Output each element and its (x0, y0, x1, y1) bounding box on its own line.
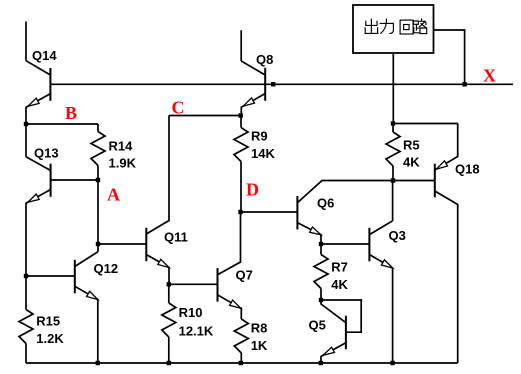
svg-text:14K: 14K (251, 146, 275, 161)
svg-text:D: D (246, 180, 259, 200)
svg-text:A: A (107, 185, 120, 205)
resistor R14 1.9K (91, 124, 137, 180)
wire node B row (26, 123, 98, 125)
svg-text:Q14: Q14 (32, 48, 57, 63)
junction Q12 collector (96, 242, 100, 246)
resistor R15 1.2K (19, 276, 64, 363)
block 出力回路 (output circuit) (353, 5, 434, 53)
node B (24, 103, 77, 126)
wire node A vertical (97, 180, 99, 244)
svg-text:R7: R7 (331, 260, 348, 275)
svg-text:Q12: Q12 (94, 261, 119, 276)
wire block right to node X (434, 30, 465, 84)
wire Q7 base row (169, 283, 218, 285)
svg-text:12.1K: 12.1K (179, 324, 214, 339)
svg-text:R10: R10 (179, 305, 203, 320)
svg-text:C: C (172, 98, 185, 118)
resistor R8 1K (234, 308, 268, 364)
wire node C row (169, 115, 241, 117)
junction Q11 emitter / R10 / Q7 base (167, 282, 171, 286)
svg-text:4K: 4K (403, 155, 420, 170)
transistor Q3 (369, 181, 405, 364)
resistor R10 12.1K (162, 284, 214, 363)
junction Q12 emitter at ground rail (96, 361, 100, 365)
svg-text:Q18: Q18 (455, 161, 480, 176)
svg-text:R15: R15 (36, 313, 60, 328)
resistor R9 14K (234, 116, 275, 213)
wire V+ supply rail (top bus) (50, 83, 513, 85)
junction Q3 emitter at ground rail (390, 361, 394, 365)
svg-text:X: X (483, 66, 496, 86)
svg-text:Q8: Q8 (256, 52, 273, 67)
junction Q8 emitter (239, 113, 243, 117)
node D (238, 180, 259, 215)
wire Q12 collector to Q11 base (98, 243, 146, 245)
svg-text:R9: R9 (251, 129, 268, 144)
svg-text:Q13: Q13 (34, 145, 59, 160)
svg-text:R5: R5 (403, 138, 420, 153)
transistor Q14 (26, 22, 57, 125)
svg-text:R14: R14 (109, 139, 134, 154)
svg-text:1K: 1K (251, 338, 268, 353)
junction Q5 emitter at ground rail (319, 361, 323, 365)
transistor Q8 (241, 30, 275, 115)
wire Q3 base row (321, 243, 369, 245)
wire ground rail (bottom bus) (26, 362, 458, 364)
junction R5 top / Q18 emitter wire (391, 121, 395, 125)
svg-text:1.2K: 1.2K (36, 331, 64, 346)
svg-text:Q6: Q6 (317, 195, 334, 210)
transistor Q12 (24, 244, 118, 363)
svg-text:Q5: Q5 (309, 317, 326, 332)
node A (96, 178, 120, 205)
transistor Q5 (309, 298, 362, 363)
transistor Q13 (26, 124, 98, 276)
wire block bottom to R5 node (392, 53, 394, 124)
svg-text:R8: R8 (251, 321, 268, 336)
svg-text:Q11: Q11 (164, 230, 188, 245)
transistor Q11 (146, 116, 188, 285)
svg-text:Q3: Q3 (389, 228, 406, 243)
resistor R7 4K (314, 244, 349, 300)
transistor Q18 (393, 124, 480, 364)
wire node D row (241, 211, 298, 213)
resistor R5 4K (386, 124, 420, 181)
svg-text:B: B (65, 103, 77, 123)
transistor Q7 (218, 212, 253, 308)
junction R5 bottom / Q18 base / Q6 collector / Q3 collector (391, 178, 395, 182)
svg-text:4K: 4K (331, 277, 348, 292)
junction R8 at ground rail (239, 361, 243, 365)
junction R10 at ground rail (167, 361, 171, 365)
svg-text:1.9K: 1.9K (109, 156, 137, 171)
junction Q6 emitter / R7 / Q3 base (319, 242, 323, 246)
node X (462, 66, 496, 87)
transistor Q6 (297, 181, 392, 245)
svg-text:Q7: Q7 (236, 268, 253, 283)
